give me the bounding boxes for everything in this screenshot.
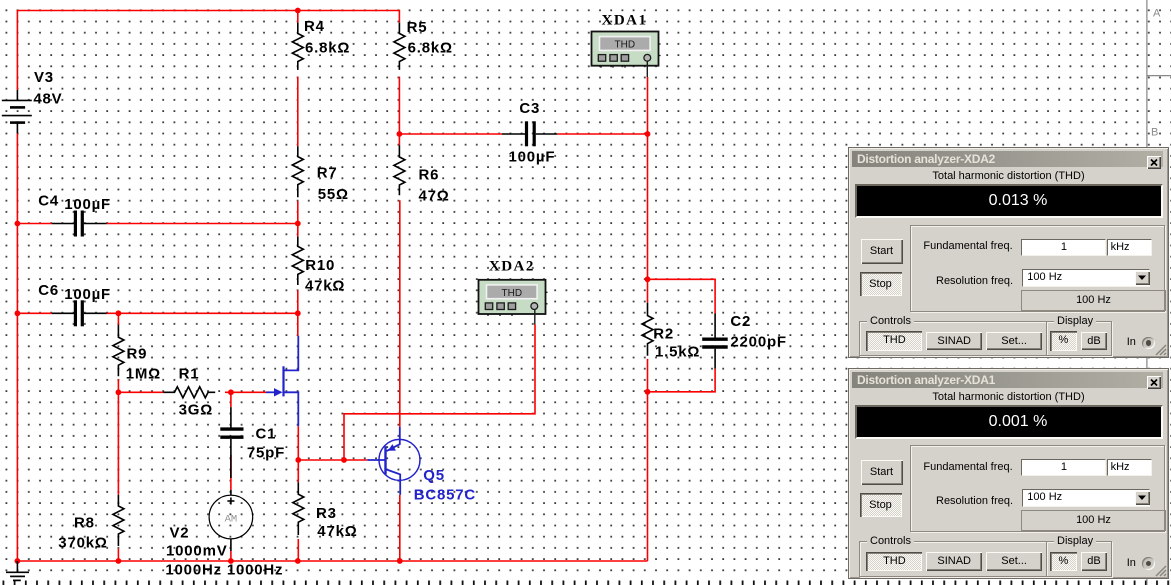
instrument window XDA2 — [848, 147, 1169, 358]
junction V2 bottom — [228, 558, 234, 564]
wire C3 row left — [399, 133, 502, 135]
svg-text:100µF: 100µF — [509, 149, 556, 166]
svg-text:2200pF: 2200pF — [730, 333, 787, 350]
junction Q5 collector bottom — [397, 558, 403, 564]
wire R3 top stub — [297, 460, 299, 482]
junction ground node — [15, 558, 21, 564]
junction top rail / R4 — [295, 8, 301, 14]
wire C4 row — [17, 223, 52, 225]
junction C3 left / R5-R6 — [397, 131, 403, 137]
svg-text:47kΩ: 47kΩ — [305, 278, 345, 295]
junction C4 right / R7-R10 — [295, 221, 301, 227]
wire R3 bottom stub — [297, 539, 299, 561]
svg-text:100µF: 100µF — [64, 196, 111, 213]
junction C6 left — [15, 310, 21, 316]
junction base row / XDA2 probe — [341, 457, 347, 463]
wire R4-R7 — [297, 77, 299, 147]
resistor R9 — [113, 325, 124, 377]
battery V3 — [2, 90, 32, 133]
junction C6 right / R10 bottom — [295, 310, 301, 316]
svg-text:XDA1: XDA1 — [602, 13, 648, 29]
svg-text:47Ω: 47Ω — [419, 188, 450, 205]
svg-text:R6: R6 — [419, 167, 440, 184]
wire R9 stub top — [117, 313, 119, 325]
svg-text:R1: R1 — [179, 366, 200, 383]
wire R4 top stub — [297, 11, 299, 24]
resistor R1 — [163, 387, 215, 398]
resistor R5 — [394, 23, 405, 70]
svg-text:6.8kΩ: 6.8kΩ — [408, 40, 453, 57]
svg-text:1000mV: 1000mV — [166, 542, 228, 559]
wire R7-C4 — [297, 201, 299, 237]
svg-text:Q5: Q5 — [423, 467, 445, 484]
svg-text:R7: R7 — [317, 165, 338, 182]
wire base row — [298, 459, 367, 461]
wire C1 top stub — [230, 392, 232, 407]
wire R1 row left — [118, 391, 163, 393]
svg-text:1.5kΩ: 1.5kΩ — [655, 344, 700, 361]
wire R6 to Q5 emitter — [399, 200, 401, 427]
wire JFET source down — [297, 426, 299, 460]
svg-text:55Ω: 55Ω — [318, 186, 349, 203]
wire C2 branch — [648, 279, 716, 313]
svg-text:THD: THD — [615, 40, 636, 51]
resistor R10 — [292, 237, 303, 285]
ground — [6, 561, 29, 580]
junction R2-C2 top — [645, 276, 651, 282]
svg-text:C3: C3 — [519, 100, 540, 117]
instrument XDA1 — [592, 32, 661, 78]
wire top rail — [17, 11, 399, 90]
wire R9-R8 — [117, 392, 119, 495]
wire R2 bottom stub — [647, 359, 649, 561]
svg-text:1MΩ: 1MΩ — [126, 365, 161, 382]
junction C4 left — [15, 221, 21, 227]
sheet right border line — [1147, 0, 1171, 585]
instrument window XDA1 — [848, 368, 1169, 579]
svg-text:75pF: 75pF — [247, 445, 285, 462]
wire R8 bottom stub — [117, 549, 119, 561]
svg-text:BC857C: BC857C — [414, 487, 476, 504]
resistor R2 — [642, 303, 653, 356]
resistor R8 — [113, 495, 124, 546]
JFET Q6 — [266, 336, 298, 426]
svg-text:V3: V3 — [34, 69, 54, 86]
wire XDA2 probe — [344, 325, 535, 461]
svg-text:C4: C4 — [38, 193, 59, 210]
resistor R6 — [394, 145, 405, 195]
svg-text:C2: C2 — [730, 313, 751, 330]
svg-text:R4: R4 — [304, 18, 325, 35]
capacitor C4 — [52, 211, 107, 237]
resistor R3 — [293, 482, 304, 535]
capacitor C1 — [220, 407, 243, 478]
junction R2-C2 bottom — [645, 389, 651, 395]
svg-text:C1: C1 — [256, 425, 277, 442]
svg-text:R3: R3 — [316, 505, 337, 522]
wire V2 bottom stub — [230, 551, 232, 561]
wire R2 top stub — [647, 279, 649, 303]
svg-text:100µF: 100µF — [64, 286, 111, 303]
svg-text:R9: R9 — [127, 346, 148, 363]
svg-text:V2: V2 — [170, 524, 190, 541]
wire R1 to gate — [225, 391, 266, 393]
wire C3 row right — [557, 133, 647, 135]
junction R3 bottom — [295, 558, 301, 564]
wire C6 row — [17, 312, 52, 314]
svg-text:3GΩ: 3GΩ — [179, 402, 213, 419]
svg-text:XDA2: XDA2 — [489, 259, 535, 275]
svg-text:R2: R2 — [653, 326, 674, 343]
svg-text:THD: THD — [502, 288, 523, 299]
sheet bottom border ticks — [0, 581, 1171, 585]
svg-text:6.8kΩ: 6.8kΩ — [305, 40, 350, 57]
wire R9 bottom to R1 row — [117, 379, 119, 392]
junction C3 right / XDA1 column — [645, 131, 651, 137]
junction C6 / R9 top — [116, 310, 122, 316]
wire R10-C6-drain — [297, 290, 299, 336]
wire left rail lower — [16, 133, 18, 561]
wire C1-V2 — [230, 455, 232, 490]
junction R1-C1 — [228, 389, 234, 395]
wire R5-C3 — [398, 77, 400, 146]
resistor R7 — [292, 146, 303, 197]
junction R9-R8-R1 — [116, 389, 122, 395]
svg-text:1000Hz 1000Hz: 1000Hz 1000Hz — [165, 562, 283, 579]
svg-text:R10: R10 — [305, 257, 335, 274]
wire Q5 collector to bottom — [399, 495, 401, 561]
svg-text:AM: AM — [225, 514, 238, 526]
svg-text:47kΩ: 47kΩ — [317, 523, 357, 540]
instrument XDA2 — [479, 280, 548, 325]
capacitor C6 — [52, 300, 107, 326]
source V2 — [209, 490, 253, 551]
svg-text:R5: R5 — [407, 19, 428, 36]
wire XDA1 down — [647, 77, 649, 279]
svg-text:R8: R8 — [74, 515, 95, 532]
svg-text:B: B — [1151, 127, 1158, 139]
svg-text:A: A — [1153, 8, 1161, 20]
svg-text:C6: C6 — [38, 282, 59, 299]
transistor Q5 — [367, 427, 420, 495]
junction JFET source / R3 / base row — [295, 457, 301, 463]
svg-text:370kΩ: 370kΩ — [58, 534, 107, 551]
wire bottom rail — [17, 560, 647, 562]
capacitor C2 — [702, 314, 728, 369]
capacitor C3 — [502, 121, 557, 146]
resistor R4 — [292, 23, 303, 70]
svg-text:48V: 48V — [33, 91, 62, 108]
junction R8 bottom — [116, 558, 122, 564]
